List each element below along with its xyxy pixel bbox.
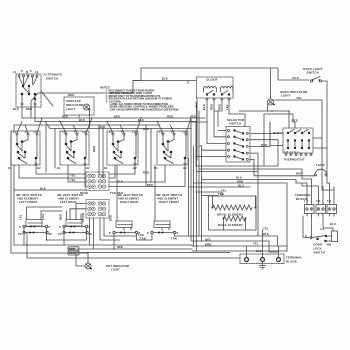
svg-text:DOOR: DOOR <box>314 243 323 247</box>
terminal block (main) <box>240 254 302 264</box>
svg-text:4-2: 4-2 <box>320 227 325 231</box>
svg-text:TAN: TAN <box>140 237 146 241</box>
clock <box>195 77 234 110</box>
svg-text:RED: RED <box>26 107 32 111</box>
svg-text:RED: RED <box>69 247 75 251</box>
svg-text:RIGHT REAR: RIGHT REAR <box>120 200 138 204</box>
svg-text:YEL: YEL <box>70 174 76 178</box>
svg-text:P: P <box>59 225 61 229</box>
svg-text:L1: L1 <box>13 70 17 74</box>
svg-text:RED: RED <box>167 115 173 119</box>
svg-text:HOT INDICATOR: HOT INDICATOR <box>106 264 129 268</box>
wire clock drops <box>197 98 229 160</box>
wire top outline BLK to oven light switch <box>141 68 309 80</box>
svg-text:L1: L1 <box>13 130 17 134</box>
svg-text:SURFACE: SURFACE <box>66 99 81 103</box>
channel wires between boxes <box>46 122 196 187</box>
svg-text:RED: RED <box>59 214 63 220</box>
svg-text:YEL: YEL <box>19 214 23 220</box>
infinite switch left rear <box>57 130 90 170</box>
svg-text:RED: RED <box>99 125 105 129</box>
ground <box>260 262 266 270</box>
oven indicator light <box>268 68 323 111</box>
svg-text:BLK: BLK <box>13 107 19 111</box>
svg-text:LAMP: LAMP <box>316 163 325 167</box>
svg-text:RED: RED <box>109 215 113 221</box>
svg-text:OVEN LIGHT: OVEN LIGHT <box>303 67 323 71</box>
svg-text:RED: RED <box>114 115 120 119</box>
door lock switch <box>303 216 338 255</box>
svg-text:P: P <box>21 69 23 73</box>
svg-text:NO: NO <box>327 243 331 247</box>
svg-text:YEL: YEL <box>70 178 76 182</box>
svg-text:BLK: BLK <box>202 104 206 110</box>
svg-text:L2: L2 <box>34 130 38 134</box>
svg-text:RIGHT FRONT: RIGHT FRONT <box>159 200 179 204</box>
connector block 2 <box>86 200 109 219</box>
bake element <box>224 216 246 221</box>
svg-text:YEL: YEL <box>225 104 229 110</box>
svg-text:BLK: BLK <box>79 118 85 122</box>
wires below switch row <box>11 131 185 253</box>
svg-text:LEFT FRONT: LEFT FRONT <box>19 200 38 204</box>
svg-text:TAN: TAN <box>138 233 144 237</box>
svg-text:LOCK: LOCK <box>314 247 322 251</box>
svg-text:BROIL ELEMENT: BROIL ELEMENT <box>217 213 243 217</box>
svg-text:LEFT REAR: LEFT REAR <box>60 200 77 204</box>
wire feeds into switch tops <box>17 118 191 133</box>
svg-text:INF HEAT SWITCH: INF HEAT SWITCH <box>156 193 182 197</box>
svg-text:BLU: BLU <box>330 222 336 226</box>
svg-text:INF HEAT SWITCH: INF HEAT SWITCH <box>57 193 83 197</box>
svg-text:L2: L2 <box>35 70 39 74</box>
bottom-left wiring <box>11 204 240 259</box>
bus wires above switch row <box>14 115 205 132</box>
svg-text:BRN: BRN <box>205 243 211 247</box>
element right rear <box>109 165 141 235</box>
svg-text:BLK: BLK <box>40 187 46 191</box>
svg-text:BLOCK: BLOCK <box>286 260 297 264</box>
svg-text:BAKE ELEMENT: BAKE ELEMENT <box>218 223 243 227</box>
svg-text:L2: L2 <box>133 130 137 134</box>
wire from alternate switch <box>22 105 35 122</box>
svg-text:RED: RED <box>92 146 96 152</box>
svg-text:RED: RED <box>62 115 68 119</box>
svg-text:YEL: YEL <box>263 227 269 231</box>
terminal block right (plugs) <box>295 193 337 216</box>
bottom mid wires to terminal block <box>192 227 287 258</box>
notice text block <box>100 87 179 112</box>
svg-text:LIGHT: LIGHT <box>66 107 76 111</box>
svg-text:LIGHT: LIGHT <box>111 268 120 272</box>
svg-text:S: S <box>30 69 32 73</box>
wires into plugs <box>296 111 334 202</box>
svg-text:RED: RED <box>69 251 75 255</box>
infinite switch left front <box>8 130 41 170</box>
svg-text:C: C <box>305 234 307 238</box>
wire feeds into left elements <box>27 207 82 220</box>
element left front <box>18 213 52 236</box>
svg-text:5 2 3 1 6 4: 5 2 3 1 6 4 <box>284 150 299 154</box>
svg-text:OVEN INDICATOR: OVEN INDICATOR <box>280 90 308 94</box>
svg-text:TAN: TAN <box>171 237 177 241</box>
svg-text:RED: RED <box>210 104 214 110</box>
oven lamp <box>255 163 327 183</box>
svg-text:1500W: 1500W <box>81 212 85 222</box>
svg-text:P: P <box>49 225 51 229</box>
svg-text:CAN CAUSE IMPROPER AND DANGERO: CAN CAUSE IMPROPER AND DANGEROUS OPERATI… <box>110 108 179 111</box>
svg-text:SWITCH: SWITCH <box>307 71 320 75</box>
svg-text:INF HEAT SWITCH: INF HEAT SWITCH <box>16 193 42 197</box>
svg-text:TAN: TAN <box>218 192 224 196</box>
wire top staircase left <box>31 68 141 118</box>
broil element box <box>209 196 257 230</box>
svg-text:BLK: BLK <box>293 76 300 80</box>
svg-text:N: N <box>26 70 28 74</box>
svg-text:AND ELEMENT: AND ELEMENT <box>17 197 38 201</box>
hot indicator light <box>76 253 129 272</box>
surface indicator light <box>64 93 94 129</box>
svg-text:BRN: BRN <box>237 180 243 184</box>
alternate switch <box>13 69 62 111</box>
svg-text:H2: H2 <box>37 166 41 170</box>
svg-text:BLK: BLK <box>263 232 269 236</box>
svg-text:SWITCH: SWITCH <box>46 77 59 81</box>
svg-text:ALTERNATE: ALTERNATE <box>44 73 63 77</box>
element left rear <box>58 212 92 236</box>
connector block 1 <box>86 172 109 191</box>
thermostat <box>261 119 327 162</box>
svg-text:BLU: BLU <box>238 184 244 188</box>
svg-text:1N: 1N <box>58 232 62 236</box>
wires below selector: horizontals to right side <box>189 166 303 251</box>
svg-text:AND ELEMENT: AND ELEMENT <box>58 197 79 201</box>
selector switch <box>226 118 250 162</box>
svg-text:BLK: BLK <box>162 77 168 81</box>
svg-text:TERMINAL: TERMINAL <box>295 193 311 197</box>
svg-text:L2: L2 <box>83 130 87 134</box>
captions under switches <box>16 193 182 204</box>
svg-text:H2: H2 <box>86 166 90 170</box>
svg-text:SWITCH: SWITCH <box>229 122 242 126</box>
svg-text:1N: 1N <box>18 232 22 236</box>
svg-text:INF HEAT SWITCH: INF HEAT SWITCH <box>117 193 143 197</box>
junction dots bottom-left buses <box>26 244 27 245</box>
svg-text:SWITCH: SWITCH <box>314 251 326 255</box>
svg-text:H1: H1 <box>104 166 108 170</box>
wires selector left <box>191 111 245 157</box>
svg-text:AND ELEMENT: AND ELEMENT <box>118 197 139 201</box>
svg-text:BLU: BLU <box>236 176 242 180</box>
svg-text:CLOCK: CLOCK <box>206 78 218 82</box>
svg-text:L2: L2 <box>183 130 187 134</box>
mid vertical comb (left of bake box) <box>189 103 202 251</box>
svg-text:YEL: YEL <box>221 189 227 193</box>
svg-text:P: P <box>109 231 111 235</box>
svg-text:RED: RED <box>143 171 149 175</box>
infinite switch right front <box>154 130 188 170</box>
wires selector right / thermostat feeds <box>239 110 295 176</box>
svg-text:RED: RED <box>68 93 75 97</box>
element right front <box>147 165 179 235</box>
svg-text:W/O: W/O <box>205 238 211 242</box>
svg-text:INDICATOR: INDICATOR <box>66 103 84 107</box>
svg-text:BLK: BLK <box>256 249 262 253</box>
svg-text:COIL: COIL <box>41 213 45 220</box>
svg-text:P: P <box>147 231 149 235</box>
svg-text:RED: RED <box>117 245 123 249</box>
svg-text:TERMINAL: TERMINAL <box>286 256 302 260</box>
svg-text:RED: RED <box>147 183 153 187</box>
svg-text:1 2: 1 2 <box>304 199 309 203</box>
svg-text:THERMOSTAT: THERMOSTAT <box>284 158 306 162</box>
svg-text:RED: RED <box>218 104 222 110</box>
wire BLK clock feed <box>133 81 196 84</box>
svg-text:2P: 2P <box>89 232 93 236</box>
oven light switch <box>293 67 328 174</box>
svg-text:SELECTOR: SELECTOR <box>227 118 244 122</box>
svg-text:YEL: YEL <box>253 242 259 246</box>
svg-text:AND ELEMENT: AND ELEMENT <box>157 197 178 201</box>
svg-text:P: P <box>19 225 21 229</box>
svg-text:BLK: BLK <box>143 127 149 131</box>
svg-text:H1: H1 <box>8 166 12 170</box>
infinite switch right rear <box>104 130 138 170</box>
svg-text:LIGHT: LIGHT <box>281 94 291 98</box>
svg-text:P: P <box>177 231 179 235</box>
svg-text:H1: H1 <box>57 166 61 170</box>
svg-text:YEL: YEL <box>296 96 302 100</box>
svg-text:2P: 2P <box>49 232 53 236</box>
svg-text:BLK: BLK <box>117 180 123 184</box>
